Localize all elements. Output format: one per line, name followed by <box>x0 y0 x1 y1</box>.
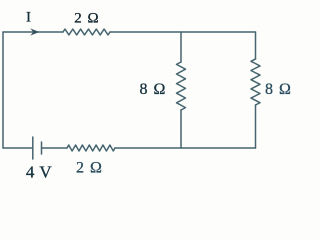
wire bottom right segment <box>115 147 256 149</box>
resistor R1 2 ohm (top) <box>63 29 110 35</box>
battery B1 4V short plate <box>41 142 43 154</box>
wire middle vertical top lead <box>180 32 182 62</box>
wire middle vertical bottom lead <box>180 110 182 148</box>
svg-text:8 Ω: 8 Ω <box>265 81 291 98</box>
wire left vertical <box>2 32 4 148</box>
resistor R3 8 ohm (middle) <box>177 62 186 110</box>
wire top horizontal right segment <box>110 31 256 33</box>
current arrow I <box>30 28 39 35</box>
wire right vertical top lead <box>255 32 257 59</box>
svg-text:8 Ω: 8 Ω <box>140 81 166 98</box>
svg-text:I: I <box>26 10 31 26</box>
wire bottom left segment <box>3 147 33 149</box>
wire battery to resistor <box>42 147 68 149</box>
svg-text:2 Ω: 2 Ω <box>76 160 102 177</box>
battery B1 4V long plate <box>32 137 34 159</box>
svg-text:4 V: 4 V <box>26 163 52 182</box>
svg-text:2 Ω: 2 Ω <box>74 11 98 27</box>
resistor R4 8 ohm (right) <box>251 59 260 105</box>
wire right vertical bottom lead <box>255 105 257 148</box>
resistor R2 2 ohm (bottom) <box>67 145 115 151</box>
wire top horizontal left segment <box>3 31 63 33</box>
